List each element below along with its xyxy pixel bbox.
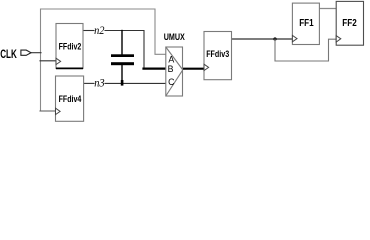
svg-text:C: C [168,77,175,87]
svg-text:FFdiv4: FFdiv4 [59,93,82,104]
svg-text:FFdiv2: FFdiv2 [59,40,82,51]
svg-text:FF2: FF2 [342,18,357,29]
svg-text:n3: n3 [94,76,104,90]
svg-text:n2: n2 [94,23,104,37]
svg-text:CLK: CLK [0,47,17,61]
svg-text:UMUX: UMUX [164,31,186,42]
svg-text:FF1: FF1 [299,18,314,29]
svg-text:B: B [168,64,174,74]
svg-text:FFdiv3: FFdiv3 [206,48,229,59]
